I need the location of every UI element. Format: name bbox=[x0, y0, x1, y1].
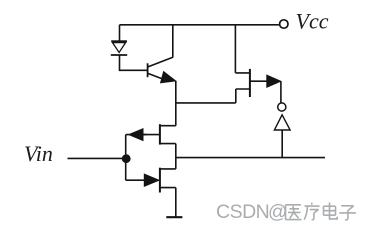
wire junction up to gate of Q3 bbox=[126, 135, 147, 159]
wire Vcc top rail bbox=[120, 24, 279, 26]
wire junction down to gate of Q4 bbox=[126, 159, 145, 181]
wire Q3 source to output rail bbox=[175, 144, 177, 158]
svg-text:Vcc: Vcc bbox=[296, 9, 329, 34]
wire output rail bbox=[176, 157, 325, 159]
wire Q1 collector to top rail bbox=[172, 25, 174, 58]
wire emitter node to gate of Q2 bbox=[176, 89, 250, 103]
transistor Q1 bbox=[148, 57, 176, 83]
wire Q1 emitter down to inverter bbox=[175, 81, 177, 126]
svg-text:@: @ bbox=[268, 202, 287, 223]
wire arrow stem bbox=[281, 130, 283, 158]
wire top rail down to Q2 bbox=[235, 25, 249, 73]
watermark chinese glyphs bbox=[286, 202, 356, 219]
wire Vin lead bbox=[68, 157, 127, 159]
wire Q4 source to ground bbox=[175, 188, 177, 217]
diode D1 bbox=[111, 41, 127, 55]
node output terminal bbox=[278, 103, 286, 111]
wire from rail down to diode D1 bbox=[119, 25, 121, 41]
svg-text:Vin: Vin bbox=[24, 141, 53, 166]
svg-text:CSDN: CSDN bbox=[216, 201, 269, 223]
transistor Q3 bbox=[129, 124, 176, 144]
wire Q4 drain to output rail bbox=[175, 158, 177, 169]
ground bbox=[166, 216, 182, 218]
wire diode cathode to base of Q1 bbox=[119, 55, 147, 70]
transistor Q2 bbox=[250, 69, 281, 97]
wire Q2 source down to output terminal bbox=[280, 81, 282, 103]
arrow up from output wire bbox=[274, 115, 290, 130]
node Vcc terminal bbox=[280, 20, 288, 28]
transistor Q4 bbox=[144, 168, 176, 193]
node input junction bbox=[122, 155, 130, 163]
